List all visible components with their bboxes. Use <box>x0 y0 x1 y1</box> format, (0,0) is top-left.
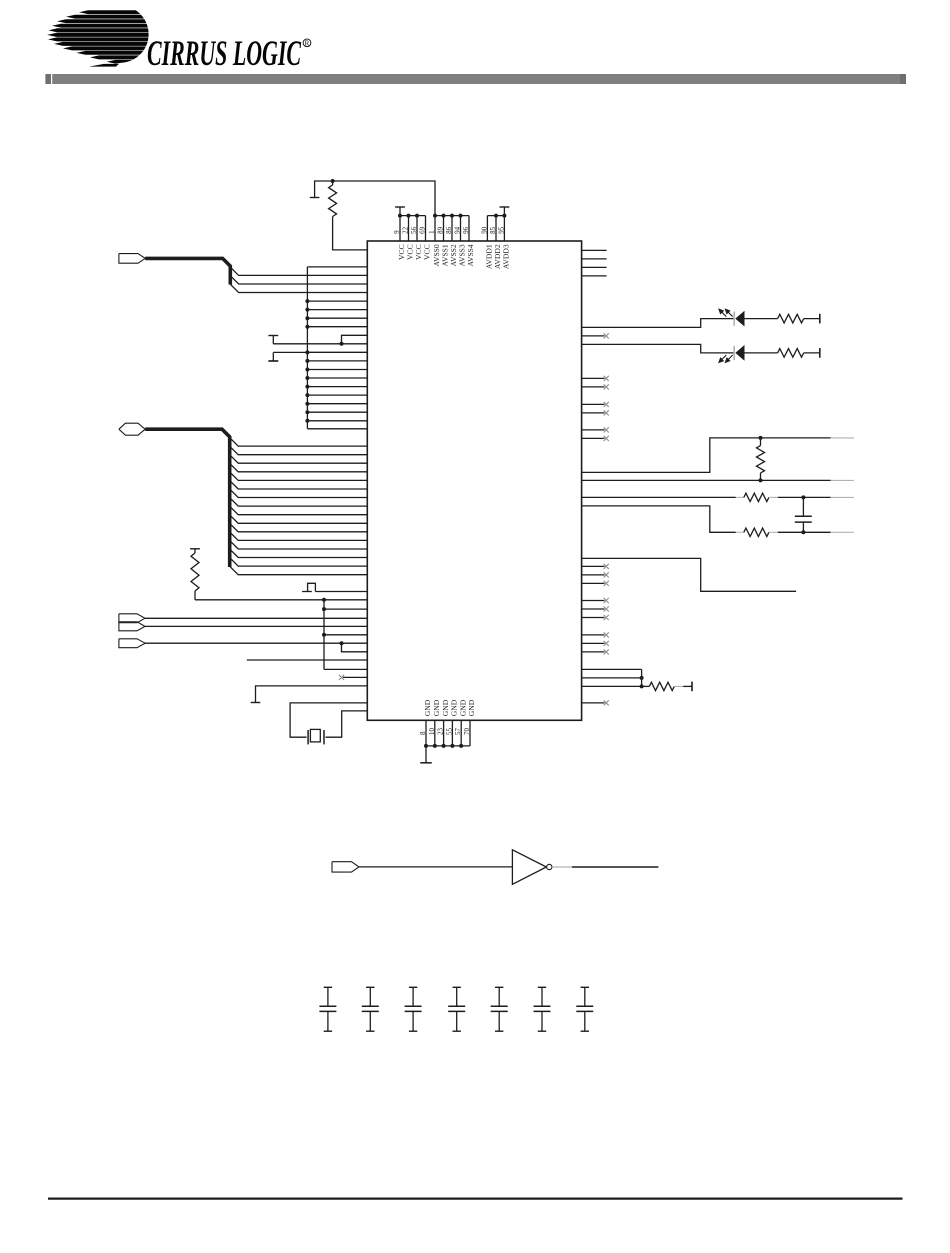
junction <box>801 530 805 534</box>
capacitor C3 <box>362 987 379 1031</box>
svg-text:85: 85 <box>489 226 497 234</box>
bus entry wire <box>230 515 368 523</box>
LED D1 cathode bar <box>733 312 735 326</box>
inverter bubble <box>547 864 552 869</box>
wire step-down row558 <box>582 558 797 591</box>
terminal bar <box>691 682 693 692</box>
pin 89 AVSS1 stub <box>443 216 445 241</box>
svg-text:8: 8 <box>419 731 427 735</box>
wire to IC <box>307 420 367 422</box>
bus entry wire <box>230 498 368 506</box>
junction <box>640 684 644 688</box>
no-connect stub left <box>343 676 367 678</box>
pin 69 VCC stub <box>425 216 427 241</box>
wire to IC <box>307 369 367 371</box>
wire from T-tap 2 <box>273 351 367 353</box>
junction <box>442 214 446 218</box>
junction <box>340 342 344 346</box>
junction <box>305 359 309 363</box>
connector J5 tag <box>119 639 145 648</box>
capacitor C4 <box>405 987 422 1031</box>
bus entry wire <box>230 566 368 574</box>
resistor R4 <box>778 349 804 358</box>
pin stub <box>582 266 607 268</box>
junction <box>494 214 498 218</box>
LED D1 arrows <box>719 309 733 316</box>
svg-text:90: 90 <box>481 226 489 234</box>
svg-text:GND: GND <box>467 699 476 716</box>
junction <box>305 325 309 329</box>
no-connect stub <box>582 617 605 619</box>
wire D1 to R3 <box>745 318 778 320</box>
wire to LED D1 <box>582 319 734 328</box>
wire into IC row599 <box>324 599 367 601</box>
pin 56 VCC stub <box>416 216 418 241</box>
inverter output wire <box>552 866 572 868</box>
junction <box>459 744 463 748</box>
svg-text:CIRRUS LOGIC: CIRRUS LOGIC <box>147 33 302 73</box>
wire to IC <box>307 300 367 302</box>
svg-text:69: 69 <box>419 226 427 234</box>
bus entry wire <box>230 284 367 292</box>
tied pins bracket <box>582 668 642 670</box>
wire clock into IC <box>315 591 367 593</box>
pin 70 GND stub <box>469 720 471 746</box>
AVDD power T symbol <box>500 206 510 208</box>
footer rule <box>48 1197 903 1199</box>
junction <box>459 214 463 218</box>
VCC power T symbol <box>395 206 405 208</box>
signal bus vertical line <box>306 267 308 429</box>
LED D2 cathode bar <box>733 346 735 360</box>
pin 1 AVSS0 stub <box>434 216 436 241</box>
no-connect stub <box>582 377 605 379</box>
pin 85 AVDD2 stub <box>495 216 497 241</box>
wire bus bottom row <box>307 428 367 430</box>
wire to IC <box>307 394 367 396</box>
pin 95 AVDD3 stub <box>503 216 505 241</box>
VCC bus wire <box>400 215 426 217</box>
wire to LED D2 <box>582 344 734 353</box>
junction <box>759 478 763 482</box>
junction <box>305 299 309 303</box>
T-tap symbol 1 <box>268 335 278 337</box>
pin stub <box>582 258 607 260</box>
wire to IC <box>307 403 367 405</box>
wire J6 to inverter <box>359 866 513 868</box>
svg-text:95: 95 <box>498 226 506 234</box>
junction <box>322 633 326 637</box>
wire branch to row652 <box>342 643 368 652</box>
no-connect stub <box>582 600 605 602</box>
no-connect stub <box>582 574 605 576</box>
wire branch row609 <box>324 608 367 610</box>
wire to IC <box>307 386 367 388</box>
wire row506 step with resistor R7 <box>582 506 736 532</box>
resistor R1 (pull-up) <box>332 181 334 185</box>
bus entry wire <box>230 438 368 446</box>
T-tap symbol 2 <box>268 360 278 362</box>
svg-text:AVSS4: AVSS4 <box>466 244 475 266</box>
svg-text:56: 56 <box>410 226 418 234</box>
pin stub <box>582 275 607 277</box>
junction <box>305 376 309 380</box>
wire to IC <box>307 360 367 362</box>
svg-text:GND: GND <box>441 699 450 716</box>
svg-text:GND: GND <box>423 699 432 716</box>
junction <box>305 308 309 312</box>
pin 23 GND stub <box>443 720 445 746</box>
no-connect stub <box>582 565 605 567</box>
wire to IC <box>307 377 367 379</box>
crystal Y1 circuit wires <box>290 703 367 737</box>
crystal Y1 <box>307 730 309 744</box>
capacitor C2 <box>319 987 336 1031</box>
junction <box>340 641 344 645</box>
junction <box>433 214 437 218</box>
pin 57 GND stub <box>460 720 462 746</box>
capacitor C7 <box>534 987 551 1031</box>
no-connect stub <box>582 642 605 644</box>
junction <box>502 214 506 218</box>
wire J5 to IC <box>145 642 367 644</box>
no-connect stub <box>582 437 605 439</box>
no-connect stub <box>582 608 605 610</box>
no-connect stub <box>582 335 605 337</box>
wire D2 to R4 <box>745 352 778 354</box>
no-connect stub <box>582 651 605 653</box>
svg-text:70: 70 <box>463 728 471 736</box>
resistor R3 <box>778 314 804 323</box>
LED D2 <box>735 345 744 361</box>
no-connect stub <box>582 386 605 388</box>
ground bar <box>251 702 261 704</box>
svg-text:R: R <box>305 39 310 47</box>
AVDD bus wire <box>487 215 504 217</box>
capacitor C8 <box>576 987 593 1031</box>
junction <box>640 676 644 680</box>
svg-text:GND: GND <box>458 699 467 716</box>
junction <box>305 385 309 389</box>
junction <box>305 419 309 423</box>
bus entry wire <box>230 523 368 531</box>
GND bus wire <box>426 745 470 747</box>
connector J4 tag <box>119 622 145 631</box>
no-connect stub <box>582 582 605 584</box>
bus entry wire <box>230 472 368 480</box>
wire to IC <box>307 309 367 311</box>
ground symbol <box>425 746 427 763</box>
wire to IC <box>307 317 367 319</box>
bus entry wire <box>230 446 368 454</box>
Cirrus Logic logo sphere <box>47 10 148 66</box>
svg-text:23: 23 <box>437 728 445 736</box>
pin 90 AVDD1 stub <box>486 216 488 241</box>
svg-text:94: 94 <box>454 226 462 234</box>
bus entry wire <box>230 549 368 557</box>
LED D2 arrows <box>719 355 733 362</box>
svg-text:9: 9 <box>393 230 401 234</box>
no-connect stub <box>582 702 605 704</box>
svg-text:89: 89 <box>437 226 445 234</box>
wire branch row669 <box>324 668 367 670</box>
junction <box>759 436 763 440</box>
junction <box>450 214 454 218</box>
pin 9 VCC stub <box>399 216 401 241</box>
bus entry wire <box>230 276 367 284</box>
top power rail wire <box>315 181 435 216</box>
wire R1 to IC <box>333 217 368 250</box>
pin 22 VCC stub <box>408 216 410 241</box>
svg-text:GND: GND <box>432 699 441 716</box>
LED D1 <box>735 311 744 327</box>
connector J2 tag <box>119 423 145 435</box>
pin 94 AVSS3 stub <box>460 216 462 241</box>
junction <box>424 744 428 748</box>
junction <box>305 402 309 406</box>
wire R4 to terminal <box>804 352 820 354</box>
clock pulse symbol <box>302 591 312 593</box>
junction <box>415 214 419 218</box>
wire from T-tap 1 <box>273 343 367 345</box>
thick bus wire from J1 <box>145 258 230 284</box>
thick bus wire from J2 <box>145 429 230 567</box>
junction node <box>331 179 335 183</box>
svg-text:10: 10 <box>428 728 436 736</box>
junction <box>801 495 805 499</box>
bus entry wire <box>230 532 368 540</box>
svg-text:96: 96 <box>462 226 470 234</box>
svg-text:VCC: VCC <box>423 244 432 260</box>
pin 10 GND stub <box>434 720 436 746</box>
junction <box>305 350 309 354</box>
bus entry wire <box>230 267 367 275</box>
svg-text:22: 22 <box>402 226 410 234</box>
connector J1 tag <box>119 254 145 264</box>
bus entry wire <box>230 463 368 471</box>
pin 96 AVSS4 stub <box>468 216 470 241</box>
resistor R8 <box>642 685 650 687</box>
pin 86 AVSS2 stub <box>451 216 453 241</box>
no-connect stub <box>582 412 605 414</box>
wire row660 <box>247 659 367 661</box>
wire J3 to IC <box>145 617 367 619</box>
wire J4 to IC <box>145 625 367 627</box>
bus entry wire <box>230 506 368 514</box>
resistor R2 (pull-down) <box>190 548 200 550</box>
svg-text:1: 1 <box>428 230 436 234</box>
svg-text:86: 86 <box>445 226 453 234</box>
junction <box>322 598 326 602</box>
svg-text:AVDD3: AVDD3 <box>502 244 511 269</box>
junction <box>305 410 309 414</box>
wire bus top row <box>307 266 367 268</box>
pin stub <box>582 249 607 251</box>
junction <box>305 368 309 372</box>
connector J3 tag <box>119 614 145 623</box>
inverter U2 <box>512 850 546 885</box>
junction <box>398 214 402 218</box>
junction <box>450 744 454 748</box>
pin 55 GND stub <box>451 720 453 746</box>
junction <box>305 393 309 397</box>
ground wire left <box>256 686 368 702</box>
capacitor C6 <box>491 987 508 1031</box>
wire bottom rail <box>582 479 831 481</box>
svg-text:55: 55 <box>445 728 453 736</box>
wire R2 to node <box>195 599 324 601</box>
terminal bar <box>819 348 821 358</box>
junction <box>305 316 309 320</box>
bus entry wire <box>230 541 368 549</box>
capacitor C5 <box>448 987 465 1031</box>
bus entry wire <box>230 455 368 463</box>
no-connect stub <box>582 634 605 636</box>
power rail end bar <box>310 197 320 199</box>
junction <box>442 744 446 748</box>
wire L-bend to pin <box>342 335 368 344</box>
junction <box>407 214 411 218</box>
header gray bar <box>45 74 51 84</box>
wire branch row635 <box>324 634 367 636</box>
no-connect stub <box>582 403 605 405</box>
terminal bar <box>819 314 821 324</box>
wire row497 with resistor R6 <box>582 496 736 498</box>
wire node vertical <box>323 600 325 670</box>
svg-text:GND: GND <box>450 699 459 716</box>
connector J6 tag <box>332 862 359 872</box>
capacitor C1 <box>802 497 804 516</box>
junction <box>433 744 437 748</box>
bus entry wire <box>230 481 368 489</box>
resistor R5 <box>760 438 762 446</box>
bus entry wire <box>230 489 368 497</box>
pin 8 GND stub <box>425 720 427 746</box>
no-connect stub <box>582 429 605 431</box>
wire to IC <box>307 411 367 413</box>
registered trademark symbol <box>303 39 311 47</box>
wire R3 to terminal <box>804 318 820 320</box>
bus entry wire <box>230 558 368 566</box>
svg-text:57: 57 <box>454 728 462 736</box>
wire to IC <box>307 326 367 328</box>
wire to IC <box>307 351 367 353</box>
wire to top rail <box>582 438 831 473</box>
IC U1 body <box>367 241 581 720</box>
junction <box>322 607 326 611</box>
AVSS bus wire <box>435 215 469 217</box>
